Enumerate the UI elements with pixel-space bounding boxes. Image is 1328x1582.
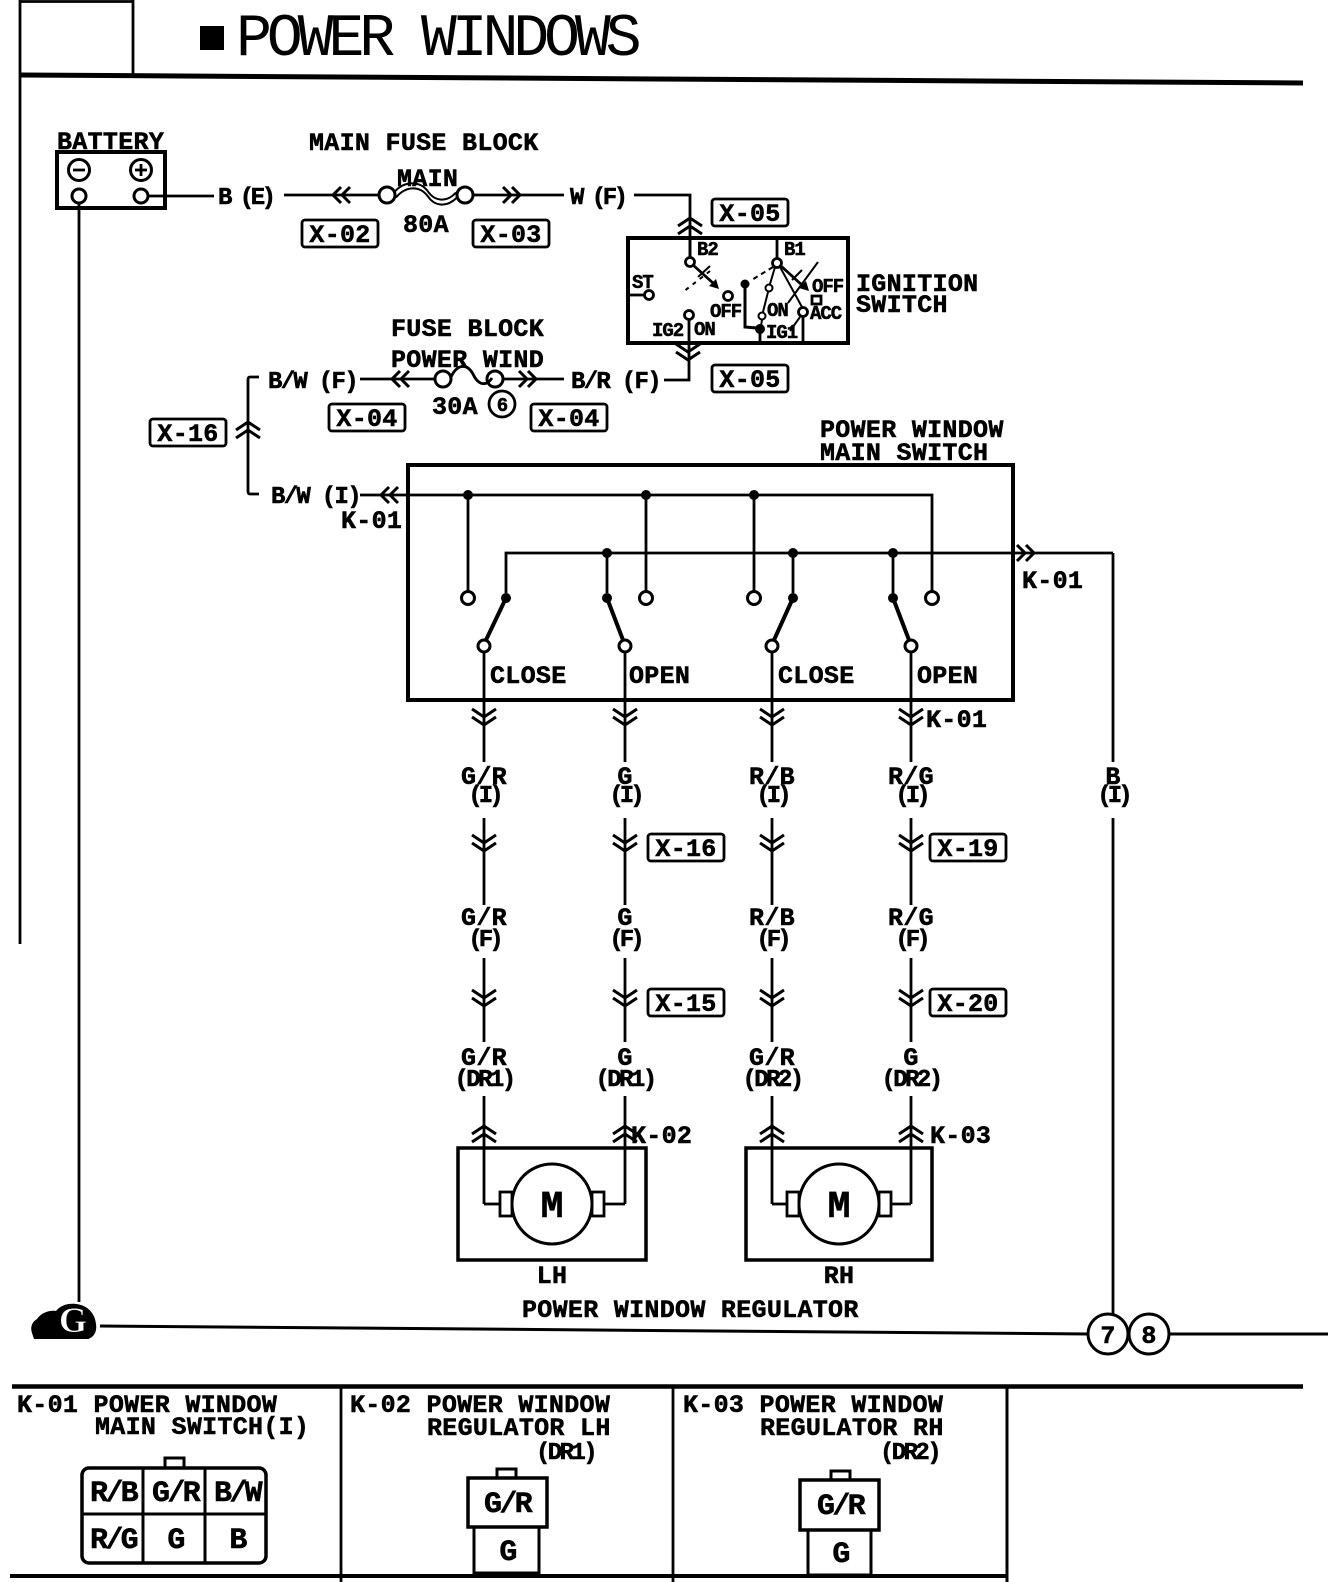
svg-text:8: 8	[1141, 1322, 1156, 1351]
label box X-15	[648, 989, 724, 1019]
K-02 connector detail	[350, 1391, 611, 1573]
svg-text:(DR1): (DR1)	[454, 1067, 513, 1094]
svg-text:G: G	[499, 1536, 516, 1570]
svg-text:(F): (F)	[756, 927, 788, 954]
wire into LH motor	[484, 1203, 500, 1206]
connector arrows X row B	[472, 835, 496, 851]
svg-text:X-15: X-15	[655, 990, 716, 1019]
svg-text:M: M	[828, 1186, 851, 1229]
svg-text:M: M	[541, 1186, 564, 1229]
K-03 connector detail	[683, 1391, 944, 1575]
label box X-04 left	[329, 404, 405, 434]
svg-text:G: G	[59, 1300, 87, 1340]
svg-text:K-01: K-01	[341, 507, 402, 536]
svg-text:30A: 30A	[432, 393, 478, 422]
svg-text:(F): (F)	[609, 927, 641, 954]
connector arrows X row C	[472, 990, 496, 1006]
wire dot to IG1	[745, 284, 757, 328]
svg-text:RH: RH	[824, 1262, 855, 1291]
svg-text:(DR2): (DR2)	[881, 1067, 940, 1094]
svg-text:X-16: X-16	[157, 420, 218, 449]
svg-text:REGULATOR LH: REGULATOR LH	[427, 1414, 611, 1443]
connector arrow X-16 bracket	[236, 422, 260, 438]
svg-text:B1: B1	[784, 239, 805, 261]
svg-text:X-05: X-05	[719, 366, 780, 395]
svg-text:G/R: G/R	[817, 1490, 866, 1524]
dashed link B1	[750, 267, 773, 281]
wire W(F) to ignition B2	[634, 195, 690, 257]
svg-text:OPEN: OPEN	[629, 662, 690, 691]
arm B1-OFF right	[781, 266, 803, 286]
svg-text:POWER WINDOW REGULATOR: POWER WINDOW REGULATOR	[522, 1296, 859, 1325]
contact ACC	[780, 267, 802, 307]
connector arrow X-03	[503, 187, 520, 203]
label box X-05 bottom	[712, 365, 788, 395]
svg-text:POWER WIND: POWER WIND	[391, 346, 544, 375]
svg-text:MAIN: MAIN	[397, 165, 458, 194]
svg-text:B/R (F): B/R (F)	[571, 369, 660, 396]
svg-text:(DR2): (DR2)	[742, 1067, 801, 1094]
svg-text:(I): (I)	[468, 783, 500, 810]
svg-text:OPEN: OPEN	[917, 662, 978, 691]
wire B/W(I) into main switch	[360, 494, 410, 497]
svg-text:X-04: X-04	[538, 405, 599, 434]
battery	[57, 152, 165, 208]
wire stubs to fixed contacts	[467, 495, 470, 591]
label box X-20	[930, 989, 1006, 1019]
svg-text:CLOSE: CLOSE	[778, 662, 855, 691]
svg-text:G/R: G/R	[484, 1488, 533, 1522]
wire IG2 out to B/R(F)	[664, 341, 689, 380]
motor M LH	[512, 1164, 592, 1244]
connector arrow X-05 top	[678, 218, 702, 234]
fixed contacts	[462, 592, 475, 605]
junction dots upper bus	[463, 490, 473, 500]
svg-text:K-01: K-01	[926, 706, 987, 735]
title bullet	[200, 26, 224, 50]
svg-text:6: 6	[497, 395, 508, 417]
svg-text:OFF: OFF	[812, 276, 844, 298]
bracket X-16	[248, 377, 259, 494]
svg-text:CLOSE: CLOSE	[490, 662, 567, 691]
wire labels (DR) row	[454, 1044, 940, 1094]
fuse number 6	[489, 391, 515, 417]
label box X-03	[473, 220, 549, 250]
svg-text:IG2: IG2	[652, 320, 684, 342]
switch arm CLOSE left	[486, 598, 506, 640]
motor LH box	[458, 1148, 646, 1260]
svg-text:W (F): W (F)	[570, 185, 625, 212]
wire labels (F) row	[461, 904, 934, 954]
svg-text:X-19: X-19	[937, 835, 998, 864]
wire upper bus	[408, 495, 932, 592]
power window main switch S1 box	[408, 465, 1013, 700]
connector arrow X-04 left	[392, 371, 409, 387]
connector arrow X-04 right	[519, 371, 536, 387]
svg-text:X-04: X-04	[336, 405, 397, 434]
svg-text:R/B: R/B	[90, 1477, 139, 1511]
wire lower bus	[506, 553, 1113, 593]
svg-text:FUSE BLOCK: FUSE BLOCK	[391, 315, 544, 344]
svg-text:POWER WINDOWS: POWER WINDOWS	[236, 6, 640, 74]
wire column 4 R/G	[910, 652, 913, 1204]
ignition switch U1	[628, 238, 848, 344]
svg-text:(DR1): (DR1)	[536, 1440, 595, 1467]
ground G	[31, 1300, 96, 1340]
title rule	[20, 75, 1303, 83]
label box X-16	[648, 834, 724, 864]
pin B2	[689, 238, 692, 257]
svg-text:REGULATOR RH: REGULATOR RH	[760, 1414, 944, 1443]
svg-text:G: G	[167, 1524, 184, 1558]
wire battery to B(E)	[148, 195, 214, 198]
svg-text:K-01: K-01	[1022, 567, 1083, 596]
svg-text:(F): (F)	[895, 927, 927, 954]
switch arm B2-OFF	[693, 265, 713, 283]
pin IG1	[755, 324, 765, 334]
svg-text:LH: LH	[537, 1262, 568, 1291]
border left	[19, 0, 22, 944]
svg-text:G/R: G/R	[152, 1477, 201, 1511]
motor M RH	[799, 1164, 879, 1244]
pin B1	[776, 238, 779, 258]
svg-text:MAIN FUSE BLOCK: MAIN FUSE BLOCK	[309, 129, 539, 158]
wire column 1 G/R	[483, 652, 486, 1204]
switch arm OPEN right	[893, 598, 909, 640]
svg-text:MAIN SWITCH(I): MAIN SWITCH(I)	[95, 1413, 309, 1442]
connector arrow X-05 bottom	[676, 344, 700, 360]
connector arrows K-01 row	[472, 709, 496, 725]
wire labels (I) row	[461, 763, 934, 810]
wire fuse to B/R(F)	[503, 378, 564, 381]
fuse POWER WIND 30A	[435, 366, 503, 387]
svg-text:X-03: X-03	[480, 221, 541, 250]
label box X-05 top	[712, 199, 788, 229]
contact ON chain	[770, 267, 775, 284]
connector arrow X-02	[333, 187, 350, 203]
pin IG2	[685, 311, 694, 320]
node dot	[741, 280, 750, 289]
wire into RH motor	[772, 1203, 787, 1206]
svg-text:G: G	[832, 1538, 849, 1572]
wire fuse to W(F)	[473, 194, 564, 197]
motor RH box	[746, 1148, 932, 1260]
wire B/W(F) to fuse	[360, 378, 436, 381]
node B(I) wire right	[1112, 553, 1115, 762]
svg-text:ACC: ACC	[810, 303, 842, 325]
svg-text:ON: ON	[694, 319, 715, 341]
svg-text:(F): (F)	[468, 927, 500, 954]
K-01 connector detail	[17, 1391, 309, 1563]
svg-text:80A: 80A	[403, 211, 449, 240]
svg-text:(I): (I)	[756, 783, 788, 810]
wire ground rail	[100, 1326, 1088, 1334]
switch arm OPEN left	[607, 598, 623, 640]
wire column 2 G	[624, 652, 627, 1204]
svg-text:B (E): B (E)	[218, 185, 273, 212]
svg-text:(I): (I)	[1097, 783, 1129, 810]
svg-text:X-02: X-02	[309, 221, 370, 250]
bottom section rules	[12, 1384, 1303, 1389]
svg-text:(I): (I)	[609, 783, 641, 810]
wire stubs to pivots	[606, 553, 609, 593]
svg-text:X-05: X-05	[719, 200, 780, 229]
svg-text:B/W (F): B/W (F)	[268, 369, 357, 396]
svg-text:(DR2): (DR2)	[880, 1440, 939, 1467]
svg-text:R/G: R/G	[90, 1524, 138, 1558]
svg-text:(I): (I)	[895, 783, 927, 810]
connector arrow K-01 right	[1017, 545, 1034, 561]
svg-text:7: 7	[1100, 1322, 1115, 1351]
svg-text:SWITCH: SWITCH	[856, 291, 948, 320]
junction dots lower bus	[602, 548, 612, 558]
fuse MAIN 80A	[379, 183, 473, 204]
label box X-02	[302, 220, 378, 250]
node 7	[1088, 1314, 1128, 1354]
wire B(E) to fuse	[284, 194, 380, 197]
connector arrow K-01 left	[381, 487, 398, 503]
svg-text:K-03: K-03	[930, 1122, 991, 1151]
label box X-19	[930, 834, 1006, 864]
wire ground rail right	[1169, 1333, 1328, 1336]
svg-text:B/W: B/W	[214, 1477, 263, 1511]
connector arrows K row D	[472, 1126, 496, 1142]
svg-text:(DR1): (DR1)	[595, 1067, 654, 1094]
svg-text:B: B	[229, 1524, 247, 1558]
node 8	[1129, 1314, 1169, 1354]
wire column 3 R/B	[771, 652, 774, 1204]
svg-text:B2: B2	[697, 239, 718, 261]
svg-text:X-20: X-20	[937, 990, 998, 1019]
svg-text:X-16: X-16	[655, 835, 716, 864]
svg-text:ON: ON	[767, 300, 788, 322]
label box X-16 left	[150, 419, 226, 449]
switch pivots	[501, 593, 511, 603]
label box X-04 right	[531, 404, 607, 434]
wire battery ground	[78, 203, 81, 1302]
border top small box	[132, 0, 135, 74]
switch arm CLOSE right	[774, 598, 793, 640]
